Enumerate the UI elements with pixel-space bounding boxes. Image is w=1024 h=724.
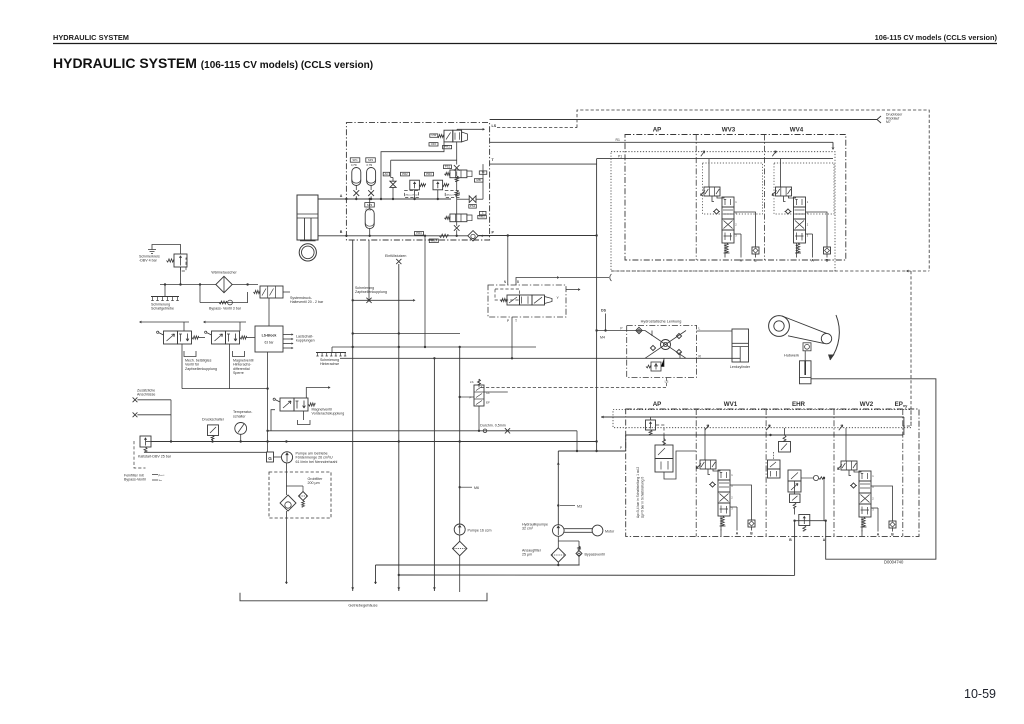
- arrow out top right of valve: [306, 388, 328, 399]
- gearbox pump circle: [281, 452, 292, 463]
- accumulator SP1 label: [350, 158, 360, 162]
- coarse filter check diamond: [280, 495, 296, 511]
- AP control block: [655, 445, 673, 459]
- EHR section wiring: [794, 481, 796, 494]
- svg-text:AC: AC: [384, 172, 388, 176]
- P1 line: [597, 158, 833, 160]
- divider EHR-WV2: [833, 409, 835, 536]
- svg-text:32 cm³: 32 cm³: [522, 527, 534, 531]
- EHR solenoid: [813, 475, 818, 480]
- WV2 outputs to bottom edge: [861, 530, 863, 536]
- svg-text:PR1: PR1: [444, 145, 450, 149]
- svg-text:Zapfwellenkupplung: Zapfwellenkupplung: [355, 290, 387, 294]
- WV2 supply drop: [845, 428, 847, 461]
- throttle X upper: [454, 165, 460, 171]
- svg-text:0,75l: 0,75l: [351, 163, 357, 167]
- svg-text:Zapfwellenkupplung: Zapfwellenkupplung: [185, 367, 217, 371]
- small priority EF drop: [478, 406, 480, 431]
- suction line: [376, 564, 580, 566]
- label PR4: [415, 232, 424, 236]
- svg-text:Hydrostatische Lenkung: Hydrostatische Lenkung: [641, 320, 682, 324]
- lube wire right section: [232, 284, 258, 286]
- return line lower: [399, 574, 795, 576]
- check throttle on B rail: [439, 234, 448, 237]
- bottom R line: [601, 416, 904, 418]
- svg-text:Schaltgetriebe: Schaltgetriebe: [151, 307, 174, 311]
- spring pair lower: [455, 191, 458, 196]
- svg-text:B: B: [750, 532, 753, 536]
- inner T distribution line: [391, 159, 457, 161]
- hitch arm link: [782, 316, 827, 343]
- svg-text:0,75l: 0,75l: [367, 163, 373, 167]
- T line from block: [490, 163, 597, 165]
- pilot tap arrow EHR: [766, 425, 770, 430]
- svg-text:Einfüllstutzen: Einfüllstutzen: [385, 254, 406, 258]
- svg-text:A: A: [877, 533, 880, 537]
- svg-text:WV2: WV2: [860, 401, 874, 408]
- return collector line y441: [151, 441, 597, 443]
- priority T drop: [511, 317, 513, 358]
- svg-text:P: P: [620, 446, 622, 450]
- hitch arm big circle: [769, 316, 790, 337]
- solenoid block lower: [450, 214, 467, 222]
- svg-text:Vorderachskupplung: Vorderachskupplung: [312, 412, 345, 416]
- accumulator SP3 label: [365, 203, 375, 207]
- AP block drain: [664, 451, 696, 479]
- svg-text:T: T: [492, 158, 495, 162]
- lube wire left section: [160, 284, 216, 286]
- hitch cylinder supply loop: [811, 379, 936, 559]
- accumulator SP3: [365, 209, 374, 229]
- svg-text:HYDRAULIC SYSTEM: HYDRAULIC SYSTEM: [53, 33, 129, 42]
- priority control valve dash-dot frame: [488, 285, 566, 317]
- divider AP-WV1: [695, 409, 697, 536]
- svg-text:PR4: PR4: [416, 231, 422, 235]
- valve drains to collector wire: [181, 344, 183, 389]
- svg-text:MB2: MB2: [479, 215, 485, 219]
- svg-text:SP2: SP2: [368, 158, 374, 162]
- bypass valve beside filter: [578, 541, 580, 546]
- label CW: [430, 134, 438, 137]
- main pressure riser: [596, 159, 598, 451]
- header rule: [53, 43, 997, 45]
- LS-Block drain down: [267, 352, 269, 452]
- outer dashed frame: [577, 110, 929, 271]
- clutch lube line y333: [353, 333, 460, 335]
- AP dashed pilot link: [656, 425, 664, 445]
- svg-text:A: A: [740, 259, 743, 263]
- arrow out left lower: [205, 321, 246, 323]
- inner elbow from pilot valve to A rail: [381, 142, 444, 199]
- svg-text:B: B: [826, 259, 829, 263]
- svg-text:Y: Y: [557, 296, 560, 300]
- svg-text:PR2: PR2: [402, 172, 408, 176]
- dashed LS link to outer dashed frame: [497, 127, 577, 129]
- steering check diamond: [636, 327, 642, 333]
- gearbox pump drive G: [267, 452, 274, 462]
- priority inner dashed pilot box: [495, 289, 520, 300]
- svg-text:³ᵇᵃʳ: ³ᵇᵃʳ: [159, 479, 163, 483]
- pilot valve top of block: [444, 130, 453, 142]
- svg-text:B: B: [789, 538, 792, 542]
- steering feed line: [597, 330, 645, 332]
- svg-text:Bypass-Ventil: Bypass-Ventil: [124, 478, 146, 482]
- test port M6: [461, 486, 472, 488]
- svg-text:1: 1: [735, 200, 737, 204]
- top valve group dash-dot border: [625, 135, 846, 261]
- test port M3: [560, 505, 575, 507]
- svg-text:M7: M7: [886, 120, 891, 124]
- bottom dotted supply box: [613, 410, 911, 428]
- pilot orifice line y430: [267, 430, 578, 432]
- charge pump 16ccm: [459, 347, 461, 525]
- pilot tap arrow WV1: [705, 425, 709, 430]
- svg-text:Druckschalter: Druckschalter: [202, 418, 225, 422]
- svg-text:A: A: [736, 532, 739, 536]
- svg-text:1: 1: [872, 474, 874, 478]
- svg-text:WV4: WV4: [790, 127, 804, 134]
- svg-text:A: A: [811, 259, 814, 263]
- svg-text:B: B: [891, 533, 894, 537]
- svg-text:PR3: PR3: [426, 172, 432, 176]
- EHR main proportional valve: [788, 470, 801, 481]
- pilot tap arrow WV2: [839, 425, 843, 430]
- svg-text:A: A: [340, 194, 343, 198]
- svg-text:Hubwerk: Hubwerk: [784, 354, 799, 358]
- svg-text:DS: DS: [601, 309, 607, 313]
- svg-text:AP: AP: [653, 401, 662, 408]
- steering R line into cylinder: [697, 357, 741, 359]
- throttle X lower: [454, 225, 460, 231]
- wire above DBV: [152, 245, 181, 255]
- EHR lower valve: [790, 494, 801, 503]
- label AC: [383, 172, 389, 176]
- label MB3: [429, 239, 438, 243]
- coarse filter element: [299, 492, 308, 501]
- svg-text:L: L: [699, 327, 701, 331]
- svg-text:B: B: [340, 230, 343, 234]
- svg-text:P1: P1: [618, 155, 622, 159]
- small priority CF wire: [484, 391, 508, 393]
- tank bracket under diff valve: [233, 351, 245, 357]
- svg-text:(Max=17 bar): (Max=17 bar): [406, 193, 419, 196]
- elbow strainer to lube line: [331, 347, 333, 353]
- svg-text:P: P: [469, 396, 471, 400]
- suction feed line y452: [146, 451, 267, 453]
- shutoff X under SP2: [368, 190, 374, 196]
- bottom P line: [626, 434, 903, 436]
- svg-text:LS-Block: LS-Block: [262, 334, 277, 338]
- tank bracket under front axle valve: [298, 420, 311, 425]
- LS arrow from pilot valve: [457, 128, 483, 130]
- svg-text:MB3: MB3: [431, 239, 437, 243]
- svg-text:EHR: EHR: [792, 401, 806, 408]
- relief valve Schmierkreis-DBV: [174, 254, 187, 267]
- P1 dotted supply box: [611, 152, 835, 271]
- dashed bottom edge of P1 supply box: [611, 270, 929, 272]
- pump suction junction: [557, 536, 559, 541]
- lube distribution line y347: [332, 346, 536, 348]
- svg-text:Pumpe 16 ccm: Pumpe 16 ccm: [468, 529, 492, 533]
- svg-text:P: P: [492, 231, 495, 235]
- wire valve to LS-Block: [268, 298, 270, 326]
- priority control spool: [507, 295, 520, 305]
- steering LS dashed line: [479, 377, 667, 387]
- svg-text:LS: LS: [665, 380, 669, 384]
- steering unit dash-dot frame: [627, 325, 697, 377]
- wire valves to LS-Block: [199, 337, 206, 339]
- strainer Schmierung Hinterachse: [316, 352, 346, 354]
- directional valve WV2: [841, 461, 857, 470]
- svg-text:WV3: WV3: [722, 127, 736, 134]
- WV3 supply drop: [708, 159, 710, 187]
- relief valve PR3: [425, 172, 434, 176]
- drain line from T: [433, 358, 435, 591]
- strainer Schmierung Schaltgetriebe: [151, 296, 179, 298]
- filler drop line: [398, 264, 400, 591]
- port A wire: [318, 198, 346, 200]
- priority N riser from P line: [507, 236, 509, 286]
- directional valve WV4: [776, 187, 792, 196]
- svg-text:2: 2: [731, 495, 733, 499]
- hitch pivot bracket: [803, 343, 811, 351]
- svg-text:Kaltstart-DBV 25 bar: Kaltstart-DBV 25 bar: [138, 455, 172, 459]
- svg-text:CW: CW: [431, 133, 436, 137]
- svg-text:106-115 CV models (CCLS versio: 106-115 CV models (CCLS version): [875, 33, 998, 42]
- WV1 outputs to bottom edge: [720, 529, 722, 536]
- block drop x425: [424, 236, 426, 347]
- svg-text:P≈¹·²: P≈¹·²: [159, 474, 165, 478]
- cold start relief Kaltstart-DBV: [140, 436, 151, 447]
- tank bracket under PTO valve: [184, 351, 196, 357]
- svg-text:Sperre: Sperre: [233, 371, 244, 375]
- WV1 supply drop: [704, 428, 706, 460]
- svg-text:CF: CF: [486, 391, 490, 395]
- pump down to coarse filter: [285, 463, 287, 472]
- svg-text:B: B: [754, 259, 757, 263]
- svg-text:M6: M6: [474, 486, 479, 490]
- svg-text:1: 1: [807, 200, 809, 204]
- P line from block: [478, 235, 597, 237]
- svg-text:SP1: SP1: [352, 158, 358, 162]
- svg-text:2: 2: [872, 496, 874, 500]
- WV4 supply drop: [780, 159, 782, 187]
- steering small priority valve: [474, 385, 484, 406]
- dashed riser to EPvy: [903, 271, 911, 426]
- svg-text:Hinterachse: Hinterachse: [320, 362, 339, 366]
- svg-text:HYDRAULIC SYSTEM (106-115 CV m: HYDRAULIC SYSTEM (106-115 CV models) (CC…: [53, 55, 373, 71]
- label PR1: [443, 145, 452, 148]
- svg-text:PS1: PS1: [445, 165, 451, 169]
- pto lube drop from block: [352, 240, 354, 591]
- svg-text:Motor: Motor: [605, 530, 615, 534]
- coarse filter dashed box: [269, 472, 331, 518]
- svg-text:10-59: 10-59: [964, 687, 996, 701]
- svg-text:M3: M3: [577, 505, 582, 509]
- svg-text:Wärmetauscher: Wärmetauscher: [211, 271, 237, 275]
- drive motor circle: [592, 525, 603, 536]
- svg-text:2: 2: [807, 222, 809, 226]
- bottom valve group dash-dot border: [626, 409, 919, 536]
- svg-text:2: 2: [735, 222, 737, 226]
- svg-text:(Max=17 bar): (Max=17 bar): [446, 193, 459, 196]
- WV4 dotted subframe: [774, 163, 834, 214]
- accumulator SP1: [352, 168, 361, 186]
- svg-text:EPvy: EPvy: [895, 401, 908, 408]
- priority B arrow out: [516, 278, 557, 286]
- PTO clutch valve mechanical: [164, 331, 178, 344]
- pump riser to P line: [557, 451, 559, 525]
- steering rotor cross: [645, 331, 686, 359]
- diff lock solenoid valve: [212, 331, 226, 344]
- svg-text:R1: R1: [616, 138, 620, 142]
- svg-text:N: N: [504, 280, 507, 284]
- pilot tap arrow WV3: [701, 151, 705, 156]
- bowtie valve right: [469, 196, 476, 203]
- priority Y arrow out: [566, 289, 578, 291]
- A rail inside block: [346, 198, 451, 200]
- block center vertical rail: [456, 142, 458, 165]
- accumulator SP2 label: [366, 158, 376, 162]
- section divider AP-WV3: [695, 135, 697, 261]
- elbow orifice line to pump line: [576, 431, 578, 451]
- svg-text:Lenkzylinder: Lenkzylinder: [730, 365, 751, 369]
- steering cylinder Lenkzylinder: [732, 329, 749, 362]
- front axle clutch solenoid valve: [280, 398, 294, 411]
- master cylinder with ring end: [297, 195, 318, 240]
- svg-text:Getriebegehäuse: Getriebegehäuse: [348, 604, 377, 608]
- return line to Druckloser Ruecklauf: [490, 119, 877, 121]
- relief valve PR2: [401, 172, 410, 176]
- filter check diamond at P port: [468, 231, 478, 241]
- divider WV1-EHR: [765, 409, 767, 536]
- svg-text:LS: LS: [492, 124, 497, 128]
- steering L line to cylinder: [697, 330, 733, 332]
- pilot tap arrow WV4: [772, 151, 776, 156]
- LS-Block output arrows: [283, 334, 292, 336]
- svg-text:P: P: [620, 327, 622, 331]
- svg-text:M4: M4: [600, 336, 605, 340]
- sump bracket Getriebegehaeuse: [240, 593, 487, 601]
- svg-text:LS: LS: [470, 380, 474, 384]
- wire valve left to drain: [271, 410, 275, 431]
- svg-text:EF: EF: [486, 401, 490, 405]
- directional valve WV3: [704, 187, 720, 196]
- solenoid block upper: [450, 170, 467, 178]
- svg-text:200 µm: 200 µm: [308, 481, 320, 485]
- svg-text:1: 1: [731, 473, 733, 477]
- hitch cylinder: [800, 361, 812, 384]
- EHR pilot valve top: [779, 442, 791, 453]
- svg-text:Δp=5,4 bar in Schaltstellung 1: Δp=5,4 bar in Schaltstellung 1 od.2: [636, 467, 640, 518]
- steering R return line: [340, 357, 697, 359]
- svg-text:AP: AP: [653, 127, 662, 134]
- orifice X Durchm 0,5mm: [505, 428, 510, 433]
- EHR relief valve: [799, 515, 810, 526]
- svg-text:Anschlüsse: Anschlüsse: [137, 393, 155, 397]
- steering relief valve: [651, 362, 661, 371]
- svg-text:61 l/min bei Nenndrehzahl: 61 l/min bei Nenndrehzahl: [296, 460, 338, 464]
- section divider WV3-WV4: [764, 135, 766, 261]
- svg-text:P: P: [507, 319, 510, 323]
- coarse filter outlet down: [285, 511, 287, 584]
- bowtie shutoff valve: [390, 181, 396, 187]
- pump pressure line to AP: [558, 450, 625, 452]
- EHR left block: [768, 460, 781, 469]
- WV3 dotted subframe: [703, 163, 763, 214]
- LS-Block: [255, 326, 283, 352]
- hitch motion arc arrow: [830, 315, 839, 360]
- pump shaft: [564, 528, 592, 530]
- directional valve WV1: [700, 460, 716, 469]
- charge pump filter: [453, 541, 467, 555]
- heat exchanger Waermetauscher: [216, 276, 232, 292]
- svg-text:B: B: [517, 280, 520, 284]
- svg-text:PS2: PS2: [470, 204, 476, 208]
- svg-text:G: G: [268, 456, 272, 461]
- small priority P wire: [460, 396, 474, 398]
- svg-text:MB: MB: [477, 178, 481, 182]
- R1 line: [490, 141, 833, 143]
- svg-text:T: T: [515, 319, 517, 323]
- suction drop to sump: [375, 565, 377, 584]
- svg-text:WV1: WV1: [724, 401, 738, 408]
- B rail inside block: [346, 235, 468, 237]
- svg-text:Bypassventil: Bypassventil: [585, 553, 605, 557]
- block B drop: [368, 240, 370, 300]
- svg-text:Halteventil 20 - 2 bar: Halteventil 20 - 2 bar: [290, 300, 324, 304]
- svg-text:63 bar: 63 bar: [264, 341, 274, 345]
- svg-text:Δp=0 bar in Schaltstellung 0: Δp=0 bar in Schaltstellung 0: [641, 477, 645, 518]
- main hydraulic pump: [553, 525, 565, 537]
- label OFF: [429, 143, 438, 146]
- svg-text:25 µm: 25 µm: [522, 553, 532, 557]
- svg-text:-DBV 4 bar: -DBV 4 bar: [139, 259, 158, 263]
- AP section relief valve: [646, 420, 656, 430]
- port B wire: [318, 235, 346, 237]
- divider WV2-EPvy: [902, 409, 904, 536]
- svg-text:D0004740: D0004740: [884, 560, 904, 565]
- svg-text:Durchm. 0,5mm: Durchm. 0,5mm: [480, 424, 506, 428]
- arrow out left upper: [141, 321, 189, 323]
- bypass valve 3 bar: [200, 302, 237, 304]
- svg-text:kupplungen: kupplungen: [296, 339, 315, 343]
- suction filter Ansaugfilter: [551, 548, 565, 562]
- wire DBV down to lube line: [180, 267, 182, 285]
- Systemdruck holding valve: [260, 286, 283, 298]
- valve block dash-dot border: [346, 123, 489, 240]
- orifice indicator circle: [483, 429, 487, 433]
- svg-text:Bypass- Ventil 3 bar: Bypass- Ventil 3 bar: [209, 307, 242, 311]
- spring pair upper: [455, 176, 458, 182]
- svg-text:schalter: schalter: [233, 414, 246, 418]
- shutoff X under SP1: [353, 190, 359, 196]
- accumulator SP2: [367, 168, 376, 186]
- svg-text:OFF: OFF: [431, 142, 437, 146]
